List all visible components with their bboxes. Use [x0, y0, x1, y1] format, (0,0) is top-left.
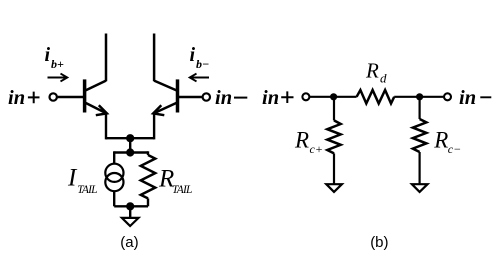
ground (b) left [326, 184, 342, 192]
node in+ (a) label [8, 87, 25, 109]
svg-text:b−: b− [196, 57, 209, 71]
junction dot emitters [126, 134, 134, 142]
svg-text:(a): (a) [120, 234, 138, 251]
svg-text:d: d [380, 71, 387, 86]
wire emitter Q2 vertical [153, 113, 155, 139]
svg-text:TAIL: TAIL [172, 184, 192, 196]
junction dot node A [330, 93, 337, 100]
current label i_b- [190, 44, 210, 71]
terminal circle in+ (a) [50, 93, 57, 100]
arrow i_b+ [48, 74, 68, 82]
terminal circle in+ (b) [302, 93, 309, 100]
resistor R_c- [413, 97, 427, 184]
label I_TAIL [67, 165, 97, 197]
wire base Q2 [178, 96, 203, 98]
svg-text:i: i [45, 44, 51, 66]
label R_c- [433, 128, 461, 157]
svg-text:c−: c− [448, 142, 461, 156]
wire left branch bottom [113, 191, 115, 206]
wire tail stub [129, 138, 131, 152]
svg-text:R: R [365, 59, 379, 83]
svg-text:in: in [215, 87, 232, 109]
label R_d [365, 59, 387, 86]
caption (b) [370, 234, 388, 251]
wire tail top rail [114, 151, 148, 153]
svg-text:in: in [262, 87, 279, 109]
resistor R_c+ [327, 97, 340, 184]
svg-text:in: in [459, 87, 476, 109]
svg-text:R: R [433, 128, 448, 153]
current label i_b+ [45, 44, 65, 71]
node in- (a) label [215, 87, 232, 109]
transistor Q1 [85, 34, 107, 116]
svg-text:TAIL: TAIL [77, 184, 97, 196]
label R_c+ [294, 128, 323, 157]
label R_TAIL [158, 166, 192, 197]
ground (b) right [412, 184, 428, 192]
wire in+ to node A [310, 96, 357, 98]
junction dot tail top [126, 148, 134, 156]
svg-text:(b): (b) [370, 234, 388, 251]
wire tail bottom rail [114, 205, 148, 207]
current source I_TAIL [105, 164, 123, 192]
junction dot tail bottom [126, 202, 134, 210]
wire left branch top [113, 151, 115, 164]
wire node B to in- [394, 96, 443, 98]
svg-text:R: R [294, 128, 309, 153]
svg-text:i: i [190, 44, 196, 66]
wire emitter Q1 vertical [105, 113, 107, 139]
svg-text:in: in [8, 87, 25, 109]
ground (a) [122, 206, 139, 226]
terminal circle in- (b) [444, 93, 451, 100]
wire emitter join [106, 137, 154, 139]
wire base Q1 [58, 96, 85, 98]
node in- (b) label [459, 87, 476, 109]
svg-text:b+: b+ [51, 57, 64, 71]
node in+ (b) label [262, 87, 279, 109]
terminal circle in- (a) [203, 93, 210, 100]
transistor Q2 [153, 34, 177, 116]
arrow i_b- [190, 74, 209, 82]
junction dot node B [416, 93, 423, 100]
caption (a) [120, 234, 138, 251]
svg-text:c+: c+ [310, 142, 323, 156]
resistor R_TAIL [141, 151, 156, 206]
resistor R_d [357, 90, 395, 104]
